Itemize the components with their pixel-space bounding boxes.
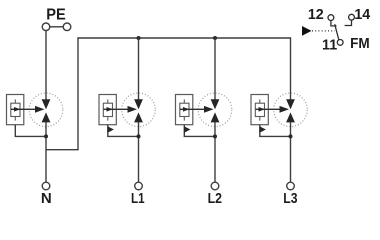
FM contact pin 14 label	[354, 7, 370, 23]
terminal L2 label	[208, 190, 222, 207]
FM contact terminal 14	[345, 14, 355, 25]
FM contact terminal 12	[328, 15, 337, 26]
svg-text:L2: L2	[208, 190, 222, 207]
wire module 1 disconnector to N node	[15, 125, 46, 137]
node L2 junction	[213, 134, 217, 138]
wire module 3 circle bottom down	[214, 122, 216, 182]
terminal N label	[41, 190, 52, 207]
remote-signal pointer module 2	[108, 126, 114, 133]
wire top bus	[78, 37, 291, 39]
wire module 4 disconnector to L3	[260, 125, 291, 137]
terminal PE label	[46, 7, 66, 24]
FM contact pin 12 label	[308, 7, 324, 23]
node bus-L2 junction	[213, 36, 217, 40]
svg-text:12: 12	[308, 7, 324, 23]
remote-signal pointer module 4	[260, 126, 266, 133]
wire module 4 circle bottom down	[290, 122, 292, 182]
node L1 junction	[137, 134, 141, 138]
FM label	[350, 35, 370, 52]
node L3 junction	[289, 134, 293, 138]
surge arrester module 4 (L3)	[251, 93, 307, 127]
wire bus down to L3 arrester	[290, 37, 292, 100]
surge arrester module 2 (L1)	[99, 93, 155, 127]
wire module 1 circle bottom down	[45, 122, 47, 182]
svg-text:14: 14	[354, 7, 370, 23]
terminal PE circle 2	[63, 23, 71, 31]
terminal L1 circle	[135, 182, 143, 190]
terminal L3 circle	[287, 182, 295, 190]
terminal L3 label	[283, 190, 297, 207]
FM contact pin 11 label	[322, 37, 337, 53]
remote-signal pointer module 3	[184, 126, 190, 133]
wire bus step to N node	[46, 149, 79, 151]
svg-text:L3: L3	[283, 190, 297, 207]
wire module 2 circle bottom down	[138, 122, 140, 182]
wire bus left step down	[77, 37, 79, 149]
svg-text:FM: FM	[350, 35, 370, 52]
svg-text:PE: PE	[46, 7, 66, 24]
FM contact terminal 11	[337, 40, 343, 46]
surge arrester module 3 (L2)	[176, 93, 232, 127]
wire module 3 disconnector to L2	[184, 125, 215, 137]
wire bus down to L1 arrester	[138, 38, 140, 101]
terminal L2 circle	[211, 182, 219, 190]
FM actuator dotted link	[312, 30, 335, 32]
svg-text:N: N	[41, 190, 52, 207]
svg-text:L1: L1	[131, 190, 145, 207]
terminal N circle	[42, 182, 50, 190]
terminal PE circle 1	[42, 23, 50, 31]
svg-text:11: 11	[322, 37, 337, 53]
FM contact lever	[335, 24, 339, 40]
surge arrester module 1 (N-PE spark gap)	[7, 93, 63, 127]
node bus-L1 junction	[137, 36, 141, 40]
terminal L1 label	[131, 190, 145, 207]
wire PE down to N-PE arrester	[45, 31, 47, 101]
node N junction	[44, 134, 48, 138]
FM actuator triangle	[302, 26, 312, 36]
wire PE bridge	[50, 26, 63, 28]
wire module 2 disconnector to L1	[108, 125, 139, 137]
wire bus down to L2 arrester	[214, 38, 216, 101]
